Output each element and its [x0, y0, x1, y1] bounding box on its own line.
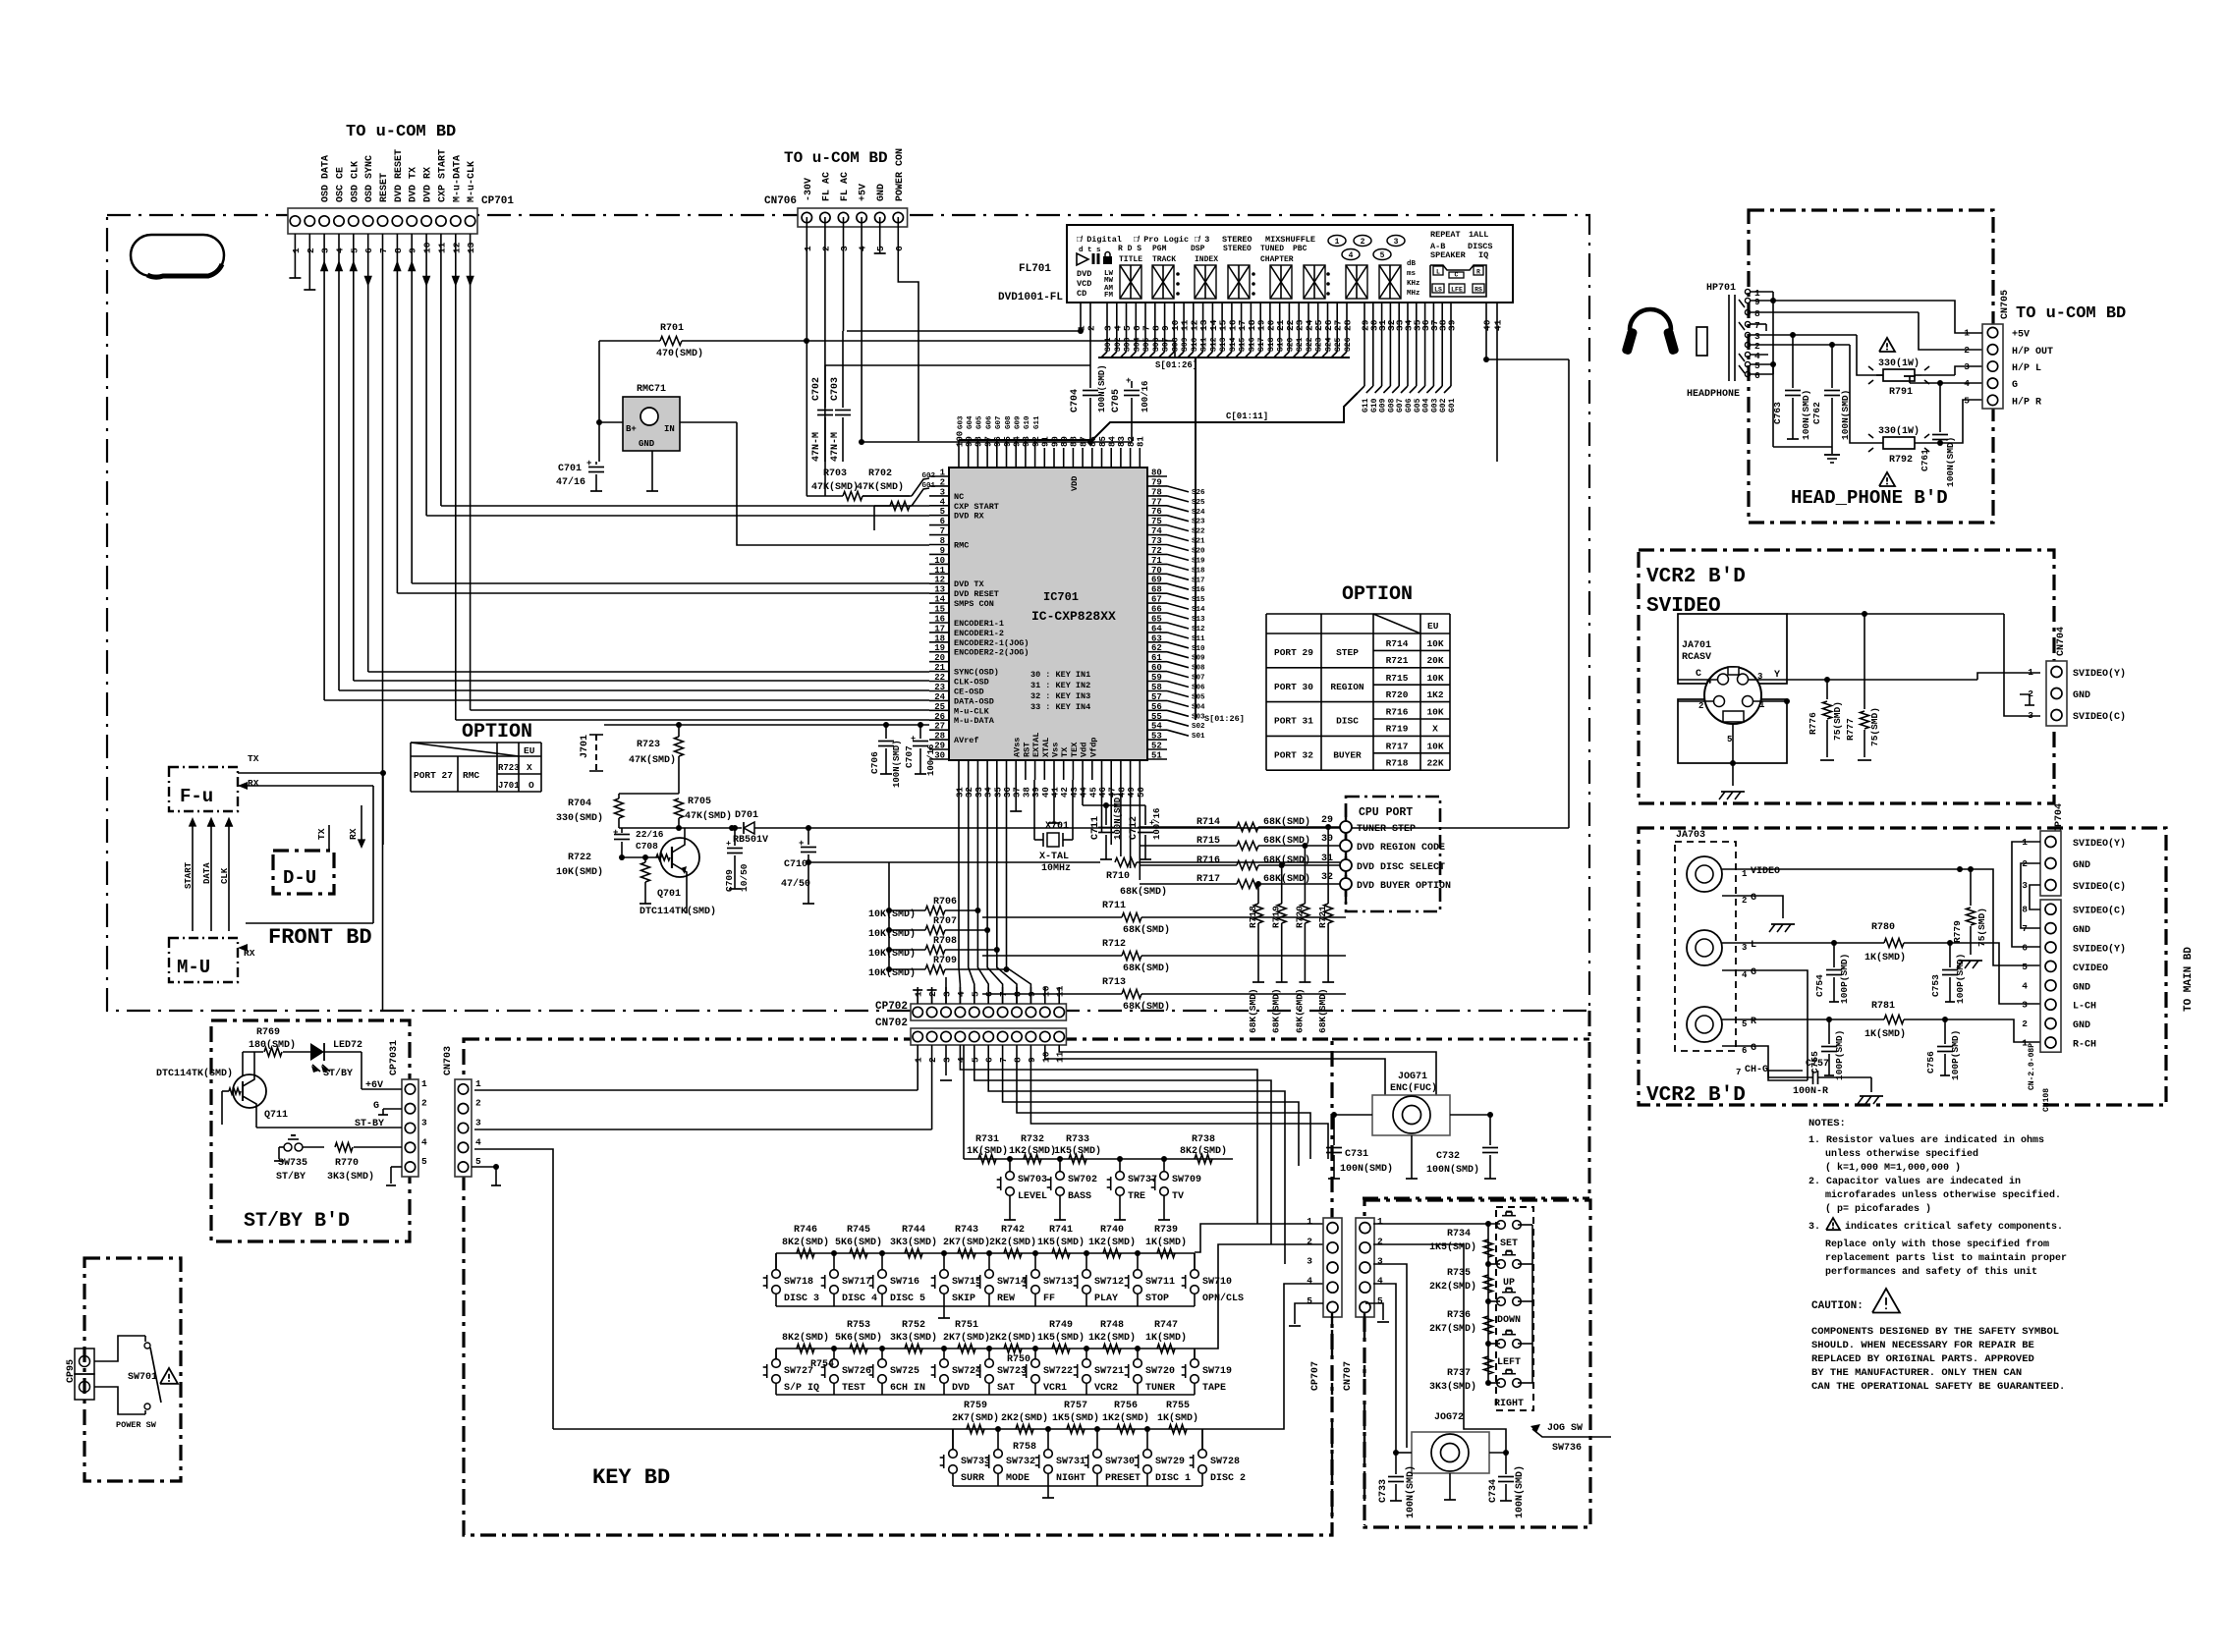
svg-text:R751: R751 [955, 1320, 978, 1331]
svg-text:C754: C754 [1814, 974, 1825, 997]
svg-text:G11: G11 [1362, 398, 1370, 413]
svg-text:RX: RX [248, 778, 259, 789]
svg-text:1: 1 [1742, 869, 1748, 879]
svg-text:94: 94 [1012, 436, 1022, 447]
svg-text:R749: R749 [1049, 1320, 1073, 1331]
svg-text:RB501V: RB501V [733, 835, 768, 846]
svg-text:D-U: D-U [283, 867, 316, 889]
svg-text:18: 18 [934, 633, 945, 643]
svg-text:3: 3 [1394, 238, 1399, 247]
svg-text:C705: C705 [1111, 389, 1122, 413]
svg-text:G: G [373, 1101, 379, 1112]
svg-text:NC: NC [954, 492, 964, 502]
svg-text:□̸ Pro Logic: □̸ Pro Logic [1134, 235, 1189, 245]
svg-text:SET: SET [1500, 1239, 1518, 1249]
svg-text:S08: S08 [1171, 337, 1180, 352]
svg-text:R756: R756 [1114, 1401, 1138, 1411]
svg-text:PORT 29: PORT 29 [1274, 647, 1313, 658]
svg-text:12: 12 [451, 242, 462, 253]
svg-text:3: 3 [320, 248, 331, 253]
svg-text:3: 3 [1964, 361, 1970, 372]
svg-text:32 : KEY IN3: 32 : KEY IN3 [1030, 691, 1090, 701]
svg-text:TX: TX [1060, 746, 1070, 757]
svg-text:97: 97 [983, 436, 993, 447]
svg-text:TEST: TEST [842, 1383, 865, 1394]
svg-text:S11: S11 [1192, 635, 1205, 643]
svg-text:R716: R716 [1386, 707, 1409, 718]
svg-text:38: 38 [1022, 787, 1031, 798]
svg-text:1K2(SMD): 1K2(SMD) [1102, 1412, 1149, 1424]
svg-text:( p= picofarades ): ( p= picofarades ) [1825, 1203, 1931, 1215]
svg-text:R715: R715 [1386, 673, 1409, 684]
svg-text:SW709: SW709 [1172, 1175, 1201, 1185]
svg-text:RESET: RESET [379, 173, 390, 202]
svg-text:100N(SMD): 100N(SMD) [1405, 1465, 1417, 1518]
svg-text:SW702: SW702 [1068, 1175, 1097, 1185]
svg-text:10K: 10K [1426, 673, 1443, 684]
svg-text:R753: R753 [847, 1320, 870, 1331]
svg-text:KEY BD: KEY BD [592, 1465, 670, 1490]
svg-text:19: 19 [934, 643, 945, 653]
svg-text:1K2: 1K2 [1426, 689, 1443, 700]
svg-text:1K2(SMD): 1K2(SMD) [1088, 1237, 1136, 1248]
svg-text:M-u-DATA: M-u-DATA [954, 716, 995, 726]
svg-text:2K2(SMD): 2K2(SMD) [1001, 1412, 1048, 1424]
svg-text:S04: S04 [1192, 703, 1205, 711]
svg-text:S03: S03 [1192, 713, 1205, 721]
svg-text:CPU PORT: CPU PORT [1359, 806, 1413, 819]
svg-text:5: 5 [875, 246, 886, 251]
svg-text:30 : KEY IN1: 30 : KEY IN1 [1030, 670, 1090, 680]
svg-text:FL AC: FL AC [840, 172, 851, 201]
svg-text:39: 39 [1447, 319, 1458, 331]
svg-text:5: 5 [2022, 962, 2028, 972]
svg-text:100N(SMD): 100N(SMD) [1514, 1465, 1526, 1518]
svg-text:G07: G07 [995, 416, 1003, 430]
svg-text:S[01:26]: S[01:26] [1155, 360, 1197, 370]
svg-text:REGION: REGION [1330, 682, 1364, 692]
svg-text:2K2(SMD): 2K2(SMD) [989, 1332, 1036, 1344]
svg-text:53: 53 [1151, 732, 1162, 742]
svg-text:55: 55 [1151, 712, 1162, 722]
svg-text:VCR2: VCR2 [1094, 1383, 1118, 1394]
svg-text:POWER CON: POWER CON [895, 148, 906, 201]
svg-text:L-CH: L-CH [2073, 1002, 2096, 1013]
svg-text:3: 3 [1377, 1256, 1383, 1267]
svg-text:R701: R701 [660, 323, 684, 334]
svg-text:10: 10 [1040, 1051, 1051, 1063]
svg-text:unless otherwise specified: unless otherwise specified [1825, 1148, 1978, 1160]
svg-text:25: 25 [934, 702, 945, 712]
svg-text:4: 4 [1377, 1276, 1383, 1287]
svg-text:CN108: CN108 [2042, 1088, 2051, 1112]
svg-text:S19: S19 [1277, 337, 1286, 352]
svg-text:DVD REGION CODE: DVD REGION CODE [1357, 843, 1445, 854]
svg-text:10K: 10K [1426, 638, 1443, 649]
svg-text:DTC114TK(SMD): DTC114TK(SMD) [156, 1068, 233, 1079]
svg-text:93: 93 [1022, 436, 1031, 447]
svg-text:SW728: SW728 [1210, 1457, 1240, 1467]
svg-text:ms: ms [1407, 270, 1417, 278]
svg-text:CAUTION:: CAUTION: [1811, 1300, 1864, 1312]
svg-text:CH-G: CH-G [1745, 1065, 1768, 1075]
svg-text:H/P OUT: H/P OUT [2012, 346, 2053, 358]
svg-text:3: 3 [942, 1057, 953, 1063]
svg-text:RX: RX [348, 828, 359, 840]
svg-text:DVD DISC SELECT: DVD DISC SELECT [1357, 862, 1445, 873]
svg-text:DATA: DATA [202, 862, 212, 884]
svg-text:SW717: SW717 [842, 1277, 871, 1288]
svg-text:10K: 10K [1426, 707, 1443, 718]
svg-text:S13: S13 [1219, 337, 1228, 352]
svg-text:75(SMD): 75(SMD) [1976, 908, 1987, 947]
svg-text:1. Resistor values are indicat: 1. Resistor values are indicated in ohms [1809, 1134, 2044, 1146]
svg-text:DVD RX: DVD RX [423, 167, 434, 202]
svg-text:7: 7 [1754, 320, 1760, 331]
svg-text:14: 14 [934, 595, 945, 605]
svg-text:Vss: Vss [1051, 743, 1061, 757]
svg-text:68K(SMD): 68K(SMD) [1271, 988, 1282, 1033]
svg-text:RIGHT: RIGHT [1494, 1399, 1524, 1409]
svg-text:89: 89 [1060, 436, 1070, 447]
svg-text:G03: G03 [1430, 398, 1439, 413]
svg-text:R714: R714 [1386, 638, 1409, 649]
svg-text:S22: S22 [1306, 337, 1314, 352]
svg-text:CP707: CP707 [1310, 1361, 1321, 1391]
svg-text:R735: R735 [1447, 1268, 1471, 1279]
svg-text:3K3(SMD): 3K3(SMD) [890, 1332, 937, 1344]
svg-text:S26: S26 [1192, 489, 1205, 497]
svg-text:R719: R719 [1386, 724, 1409, 735]
svg-text:+: + [613, 828, 618, 838]
svg-text:3: 3 [839, 246, 850, 251]
svg-text:DVD RESET: DVD RESET [954, 589, 999, 599]
svg-text:68K(SMD): 68K(SMD) [1317, 988, 1328, 1033]
svg-text:2: 2 [940, 477, 945, 487]
svg-text:NOTES:: NOTES: [1809, 1118, 1846, 1129]
svg-text:S24: S24 [1192, 509, 1205, 517]
svg-text:87: 87 [1079, 436, 1088, 447]
svg-text:+: + [799, 839, 804, 849]
svg-text:6: 6 [1742, 1046, 1747, 1056]
svg-text:R743: R743 [955, 1225, 978, 1236]
svg-text:PRESET: PRESET [1105, 1473, 1141, 1484]
svg-text:CN-2.0-08P: CN-2.0-08P [2028, 1043, 2036, 1090]
svg-text:CE-OSD: CE-OSD [954, 688, 984, 697]
svg-text:65: 65 [1151, 615, 1162, 625]
svg-text:REPLACED BY ORIGINAL PARTS. AP: REPLACED BY ORIGINAL PARTS. APPROVED [1811, 1353, 2034, 1365]
svg-text:9: 9 [408, 248, 418, 253]
svg-text:HP701: HP701 [1706, 283, 1736, 294]
svg-text:S10: S10 [1192, 645, 1205, 653]
svg-text:R712: R712 [1102, 939, 1126, 950]
svg-text:82: 82 [1127, 436, 1137, 447]
svg-text:C703: C703 [830, 377, 841, 401]
svg-text:S04: S04 [1133, 337, 1141, 352]
svg-text:62: 62 [1151, 643, 1162, 653]
svg-text:X: X [1432, 724, 1438, 735]
svg-text:+: + [586, 459, 591, 468]
svg-text:28: 28 [1343, 319, 1354, 331]
svg-text:100P(SMD): 100P(SMD) [1839, 954, 1850, 1004]
svg-text:90: 90 [1050, 436, 1060, 447]
svg-text:2: 2 [306, 248, 316, 253]
svg-text:79: 79 [1151, 477, 1162, 487]
svg-text:OSD DATA: OSD DATA [321, 155, 332, 202]
svg-text:35: 35 [993, 787, 1003, 798]
svg-text:RMC71: RMC71 [637, 384, 666, 395]
svg-text:SW721: SW721 [1094, 1366, 1124, 1377]
svg-text:99: 99 [965, 436, 974, 447]
svg-text:SVIDEO(Y): SVIDEO(Y) [2073, 838, 2126, 850]
svg-text:RCASV: RCASV [1682, 652, 1711, 663]
svg-text:S09: S09 [1181, 337, 1190, 352]
svg-text:68K(SMD): 68K(SMD) [1123, 924, 1170, 936]
svg-text:1K5(SMD): 1K5(SMD) [1052, 1412, 1099, 1424]
svg-text:G03: G03 [957, 415, 965, 429]
svg-text:Replace only with those specif: Replace only with those specified from [1825, 1239, 2049, 1250]
svg-text:3K3(SMD): 3K3(SMD) [890, 1237, 937, 1248]
svg-text:H/P L: H/P L [2012, 362, 2041, 374]
svg-text:10K: 10K [1426, 741, 1443, 751]
svg-text:63: 63 [1151, 633, 1162, 643]
svg-text:DVD TX: DVD TX [409, 167, 419, 202]
svg-text:4: 4 [1964, 378, 1970, 389]
svg-text:SW730: SW730 [1105, 1457, 1135, 1467]
svg-text:RST: RST [1022, 743, 1031, 757]
svg-text:42: 42 [1060, 787, 1070, 798]
svg-text:SVIDEO(C): SVIDEO(C) [2073, 906, 2126, 917]
svg-text:IQ: IQ [1478, 250, 1488, 260]
svg-text:C[01:11]: C[01:11] [1226, 412, 1268, 421]
svg-text:S21: S21 [1296, 337, 1305, 352]
svg-text:100P(SMD): 100P(SMD) [1950, 1030, 1961, 1080]
svg-text:C704: C704 [1070, 389, 1081, 413]
svg-text:S16: S16 [1248, 337, 1256, 352]
svg-text:S18: S18 [1267, 337, 1276, 352]
svg-text:( k=1,000 M=1,000,000 ): ( k=1,000 M=1,000,000 ) [1825, 1162, 1961, 1174]
svg-text:IC701: IC701 [1043, 590, 1079, 604]
svg-text:100P(SMD): 100P(SMD) [1834, 1030, 1845, 1080]
svg-text:KHz: KHz [1407, 280, 1420, 288]
svg-text:SW735: SW735 [278, 1158, 307, 1169]
svg-text:G07: G07 [1396, 398, 1405, 413]
svg-text:IC-CXP828XX: IC-CXP828XX [1031, 609, 1116, 624]
svg-text:LFE: LFE [1451, 287, 1463, 294]
svg-text:S06: S06 [1152, 337, 1161, 352]
svg-text:11: 11 [1055, 1051, 1066, 1063]
svg-text:REW: REW [997, 1294, 1015, 1304]
svg-text:52: 52 [1151, 742, 1162, 751]
svg-text:TO u-COM BD: TO u-COM BD [2016, 304, 2126, 323]
svg-text:5: 5 [349, 248, 360, 253]
svg-text:R734: R734 [1447, 1229, 1471, 1239]
svg-text:S21: S21 [1192, 538, 1205, 546]
svg-text:100/16: 100/16 [1141, 381, 1150, 413]
svg-text:77: 77 [1151, 497, 1162, 507]
svg-text:7: 7 [998, 991, 1009, 997]
svg-text:31 : KEY IN2: 31 : KEY IN2 [1030, 681, 1090, 690]
svg-text:1K(SMD): 1K(SMD) [1145, 1237, 1187, 1248]
svg-text:S14: S14 [1192, 606, 1205, 614]
svg-text:TO u-COM BD: TO u-COM BD [784, 149, 888, 167]
svg-text:G04: G04 [967, 415, 974, 429]
svg-text:FM: FM [1104, 292, 1114, 300]
svg-text:C733: C733 [1378, 1479, 1389, 1503]
svg-text:PLAY: PLAY [1094, 1294, 1118, 1304]
svg-text:6: 6 [940, 517, 945, 526]
svg-text:G11: G11 [1033, 415, 1041, 429]
svg-text:3K3(SMD): 3K3(SMD) [1429, 1381, 1476, 1393]
svg-text:CXP START: CXP START [437, 149, 448, 202]
svg-text:STEREO: STEREO [1223, 245, 1252, 253]
svg-text:S07: S07 [1192, 675, 1205, 683]
svg-text:G: G [1751, 1043, 1756, 1054]
svg-text:OSC CE: OSC CE [335, 167, 346, 202]
svg-text:9: 9 [1027, 991, 1037, 997]
svg-text:VCR2 B'D: VCR2 B'D [1646, 1084, 1746, 1107]
svg-text:4: 4 [858, 246, 868, 251]
svg-text:SW713: SW713 [1043, 1277, 1073, 1288]
svg-text:9: 9 [1027, 1057, 1037, 1063]
svg-text:DSP: DSP [1191, 245, 1205, 253]
svg-text:4: 4 [334, 248, 345, 253]
svg-text:R733: R733 [1066, 1134, 1089, 1145]
svg-text:6: 6 [363, 248, 374, 253]
svg-text:5: 5 [1380, 251, 1385, 260]
svg-text:24: 24 [934, 692, 945, 702]
svg-text:G09: G09 [1379, 398, 1388, 413]
svg-text:10: 10 [934, 556, 945, 566]
svg-text:SYNC(OSD): SYNC(OSD) [954, 668, 999, 678]
svg-text:2: 2 [2022, 1019, 2028, 1029]
svg-text:DATA-OSD: DATA-OSD [954, 696, 994, 706]
svg-text:SW723: SW723 [997, 1366, 1027, 1377]
svg-text:□̸ 3: □̸ 3 [1195, 235, 1209, 245]
svg-text:ENCODER1-2: ENCODER1-2 [954, 629, 1004, 638]
svg-text:R744: R744 [902, 1225, 925, 1236]
svg-text:+: + [1126, 376, 1131, 386]
svg-text:C732: C732 [1436, 1151, 1460, 1162]
svg-text:RMC: RMC [463, 770, 479, 781]
svg-text:SVIDEO(C): SVIDEO(C) [2073, 881, 2126, 893]
svg-text:96: 96 [993, 436, 1003, 447]
svg-text:R737: R737 [1447, 1368, 1471, 1379]
svg-text:31: 31 [956, 787, 966, 798]
svg-text:CD: CD [1077, 289, 1086, 299]
svg-text:80: 80 [1151, 468, 1162, 478]
svg-text:1: 1 [1307, 1216, 1312, 1227]
svg-text:R738: R738 [1192, 1134, 1215, 1145]
svg-text:JA703: JA703 [1676, 830, 1705, 841]
svg-text:21: 21 [934, 663, 945, 673]
svg-text:3: 3 [475, 1118, 481, 1129]
svg-text:MHz: MHz [1407, 290, 1420, 298]
svg-text:LED72: LED72 [333, 1040, 362, 1051]
svg-text:92: 92 [1031, 436, 1041, 447]
svg-text:45: 45 [1088, 787, 1098, 798]
svg-text:PBC: PBC [1293, 245, 1308, 253]
svg-text:TX: TX [316, 828, 327, 840]
svg-text:7: 7 [998, 1057, 1009, 1063]
svg-text:4: 4 [1706, 677, 1712, 687]
svg-text:MW: MW [1104, 277, 1114, 285]
svg-text:4: 4 [940, 497, 946, 507]
svg-text:VIDEO: VIDEO [1751, 866, 1780, 877]
svg-text:2: 2 [1698, 701, 1703, 711]
svg-text:G05: G05 [976, 415, 984, 429]
svg-text:S15: S15 [1192, 596, 1205, 604]
svg-text:R717: R717 [1386, 741, 1409, 751]
svg-text:C734: C734 [1488, 1479, 1499, 1503]
svg-text:54: 54 [1151, 722, 1162, 732]
svg-text:4: 4 [956, 1057, 967, 1063]
svg-text:TO u-COM BD: TO u-COM BD [346, 123, 456, 141]
svg-text:C710: C710 [784, 859, 807, 870]
svg-text:8: 8 [1013, 1057, 1024, 1063]
svg-text:100N(SMD): 100N(SMD) [1945, 437, 1956, 487]
svg-text:R708: R708 [933, 936, 957, 947]
svg-text:R704: R704 [568, 798, 591, 809]
svg-text:D701: D701 [735, 810, 758, 821]
svg-text:POWER SW: POWER SW [116, 1420, 157, 1430]
svg-text:J701: J701 [580, 735, 590, 758]
svg-text:-30V: -30V [804, 178, 814, 201]
svg-text:SURR: SURR [961, 1473, 984, 1484]
svg-text:S05: S05 [1192, 694, 1205, 702]
svg-text:C763: C763 [1772, 402, 1783, 424]
svg-text:95: 95 [1003, 436, 1013, 447]
svg-text:S18: S18 [1192, 567, 1205, 575]
svg-text:R706: R706 [933, 897, 957, 908]
svg-text:R769: R769 [256, 1027, 280, 1038]
svg-text:R781: R781 [1871, 1001, 1895, 1012]
svg-text:R739: R739 [1154, 1225, 1178, 1236]
svg-text:SKIP: SKIP [952, 1294, 975, 1304]
svg-text:ST/BY B'D: ST/BY B'D [244, 1210, 350, 1233]
svg-text:C756: C756 [1925, 1051, 1936, 1074]
svg-text:7: 7 [378, 248, 389, 253]
svg-text:17: 17 [934, 624, 945, 633]
svg-text:C: C [1455, 272, 1459, 279]
svg-text:CHAPTER: CHAPTER [1260, 255, 1294, 264]
svg-text:CXP START: CXP START [954, 502, 999, 512]
svg-text:S17: S17 [1192, 577, 1205, 584]
svg-text:VCR2 B'D: VCR2 B'D [1646, 566, 1746, 588]
svg-text:74: 74 [1151, 526, 1162, 536]
svg-text:S12: S12 [1192, 626, 1205, 633]
svg-text:66: 66 [1151, 605, 1162, 615]
svg-text:+5V: +5V [2012, 330, 2030, 341]
svg-text:81: 81 [1137, 436, 1146, 447]
svg-text:2K7(SMD): 2K7(SMD) [943, 1237, 990, 1248]
svg-text:SW719: SW719 [1202, 1366, 1232, 1377]
svg-text:G09: G09 [1014, 415, 1022, 429]
svg-text:X-TAL: X-TAL [1039, 852, 1069, 862]
svg-text:75: 75 [1151, 517, 1162, 526]
svg-text:2K7(SMD): 2K7(SMD) [952, 1412, 999, 1424]
svg-text:1: 1 [914, 991, 924, 997]
svg-text:S[01:26]: S[01:26] [1204, 714, 1245, 724]
svg-text:R721: R721 [1386, 655, 1409, 666]
svg-text:330(SMD): 330(SMD) [556, 812, 603, 824]
svg-text:S23: S23 [1315, 337, 1324, 352]
svg-text:LEVEL: LEVEL [1018, 1191, 1047, 1202]
svg-text:SW725: SW725 [890, 1366, 919, 1377]
svg-text:DISC: DISC [1336, 716, 1359, 727]
svg-text:100N(SMD): 100N(SMD) [1801, 390, 1811, 440]
svg-text:dB: dB [1407, 260, 1417, 268]
